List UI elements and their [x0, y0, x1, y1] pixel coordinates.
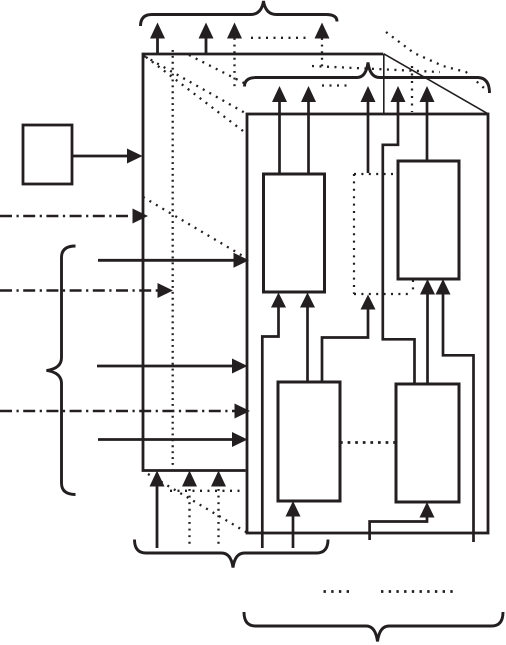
arrow into box2 bottom right, wire down right: [443, 293, 474, 542]
dotted diagonal from left edge to solid arrow tip: [143, 197, 248, 259]
inner top arrow 3: [367, 101, 370, 174]
dotted horizontal between outer top arrows: [251, 37, 307, 39]
dotted stem of outer top arrow 4: [321, 38, 323, 68]
input square block: [23, 125, 72, 184]
diagonal edge from outer top-right to inner top-right: [384, 54, 488, 114]
outer top arrow 1: [156, 37, 159, 54]
dotted horizontal below outer bottom edge: [170, 490, 242, 492]
dotted vertical line x=172: [172, 50, 174, 466]
dotted link between bottom sub-boxes: [340, 441, 396, 444]
arrow into box4 bottom, wire from lower left: [370, 516, 427, 540]
dotted near-horizontal line above inner brace: [312, 66, 440, 72]
dotted stem of bottom arrow 2: [188, 489, 190, 548]
brace over outer box top: [141, 1, 338, 26]
dots group large: [381, 590, 453, 593]
dotted horizontal between inner top arrows: [322, 84, 347, 86]
arrow from square to outer box: [72, 155, 129, 158]
dash-dot input line 1: [0, 215, 134, 217]
dotted vertical x=412 above inner box: [411, 66, 413, 112]
hidden-edge dotted diagonal top-left corner to inner corner: [144, 56, 247, 114]
dotted diagonal to inner brace end: [189, 55, 246, 84]
outer bottom arrow 3 head: [211, 471, 226, 487]
arrow into box1 bottom left, wire down: [262, 306, 278, 548]
hidden-edge dotted diagonal bottom-left to inner bottom-left: [148, 474, 246, 532]
dots group small: [324, 590, 350, 593]
sub-box 3 (bottom-left): [278, 382, 340, 501]
inner top arrow 4 head: [391, 86, 406, 102]
left brace: [47, 246, 76, 495]
brace under bottom-left inputs: [135, 540, 329, 568]
dotted curve top right: [386, 32, 484, 88]
inner box (front face): [247, 114, 488, 533]
outer box (back face): [143, 54, 383, 472]
sub-box 2 (top-right): [398, 161, 459, 279]
sub-box 1 (top-left): [264, 174, 325, 292]
outer bottom arrow 1 (solid): [156, 485, 159, 548]
hidden-edge dotted diagonal (steep) from top-left corner: [146, 57, 247, 134]
outer top arrow 4 head: [315, 23, 330, 39]
dash-dot input line 3: [0, 410, 235, 412]
outer top arrow 2: [205, 37, 208, 54]
inner top arrow 1: [278, 101, 281, 175]
arrow into box2 bottom left, from box4 top: [426, 293, 429, 384]
inner top arrow 5: [426, 101, 429, 162]
outer bottom arrow 2 head: [182, 471, 197, 487]
brace under bottom of inner box: [244, 612, 503, 642]
arrow into dotted box bottom, fed from box3 top: [322, 308, 368, 382]
solid input line 1: [98, 259, 235, 262]
dash-dot input line 2: [0, 289, 159, 291]
outer top arrow 3 head: [227, 23, 242, 39]
arrow into box3 bottom: [292, 515, 295, 548]
brace over inner box top: [245, 63, 490, 94]
solid input line 2: [97, 365, 233, 368]
wire from inner top arrow 4 down to box4: [383, 100, 415, 383]
outer box right edge (thin): [383, 54, 385, 114]
inner top arrow 2: [307, 101, 310, 175]
arrow into box1 bottom right, from box3 top: [306, 306, 309, 382]
dotted sub-box (hidden block): [354, 174, 413, 294]
sub-box 4 (bottom-right): [396, 384, 459, 502]
dotted stem of bottom arrow 3: [217, 489, 219, 548]
solid input line 3: [98, 438, 233, 441]
dotted stem of outer top arrow 3: [233, 38, 235, 90]
